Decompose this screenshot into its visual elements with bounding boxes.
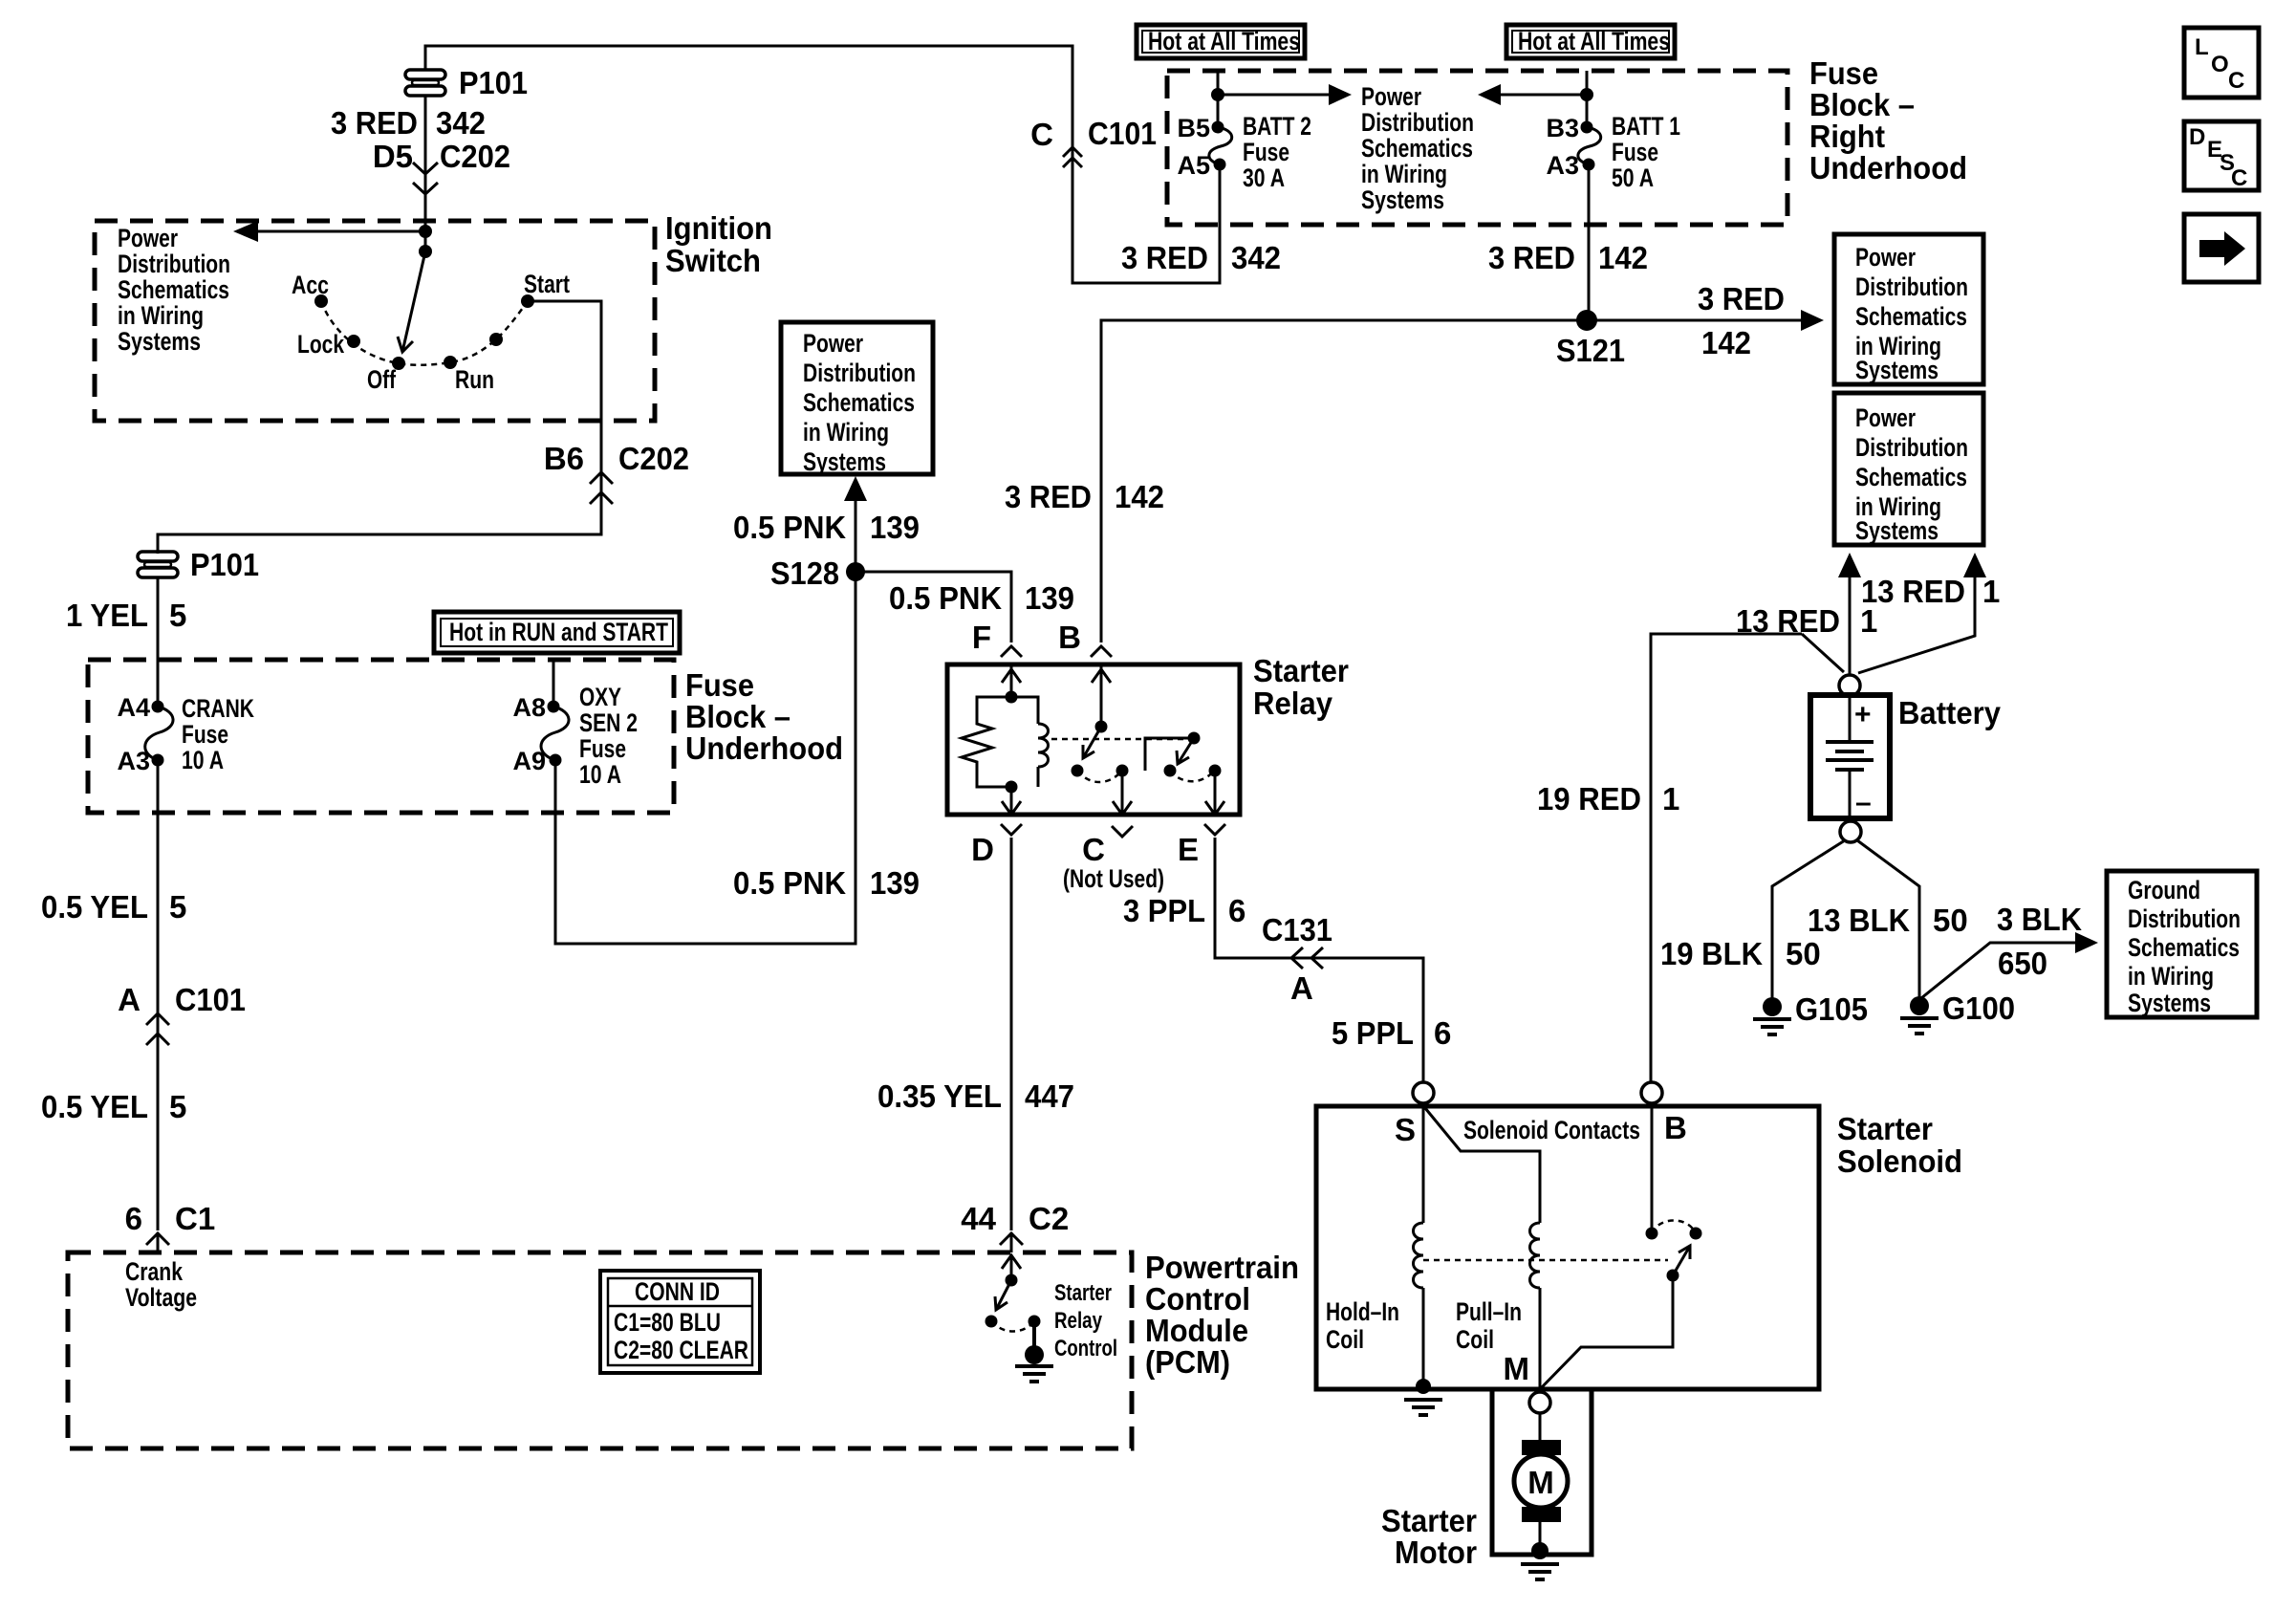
node B3 feed with arrow to power distribution (left) <box>1478 84 1593 105</box>
svg-text:Fuse: Fuse <box>182 720 228 749</box>
wire: OXY SEN2 fuse feed stub <box>552 660 555 707</box>
svg-text:C101: C101 <box>1088 116 1157 151</box>
wire: battery positive up arrow to power dist (left) <box>1838 553 1861 675</box>
svg-text:Ground: Ground <box>2128 876 2200 904</box>
svg-text:Schematics: Schematics <box>1361 134 1473 163</box>
label Hot at All Times (right, double box) <box>1506 25 1675 58</box>
legend box LOC <box>2184 28 2259 98</box>
label 3 RED 342 (circuit from BATT2 fuse) <box>1121 240 1281 275</box>
node Run <box>444 356 494 394</box>
wire: BATT1 fuse feed stub <box>1586 71 1589 127</box>
svg-text:A8: A8 <box>512 693 546 722</box>
svg-text:Distribution: Distribution <box>803 359 916 387</box>
svg-text:Underhood: Underhood <box>685 730 843 766</box>
label 19 BLK 50 <box>1660 936 1821 971</box>
svg-text:G100: G100 <box>1942 991 2015 1026</box>
svg-text:L: L <box>2195 34 2209 60</box>
splice S121 <box>1556 310 1625 368</box>
svg-text:C: C <box>1082 832 1105 867</box>
svg-text:Power: Power <box>118 224 178 252</box>
svg-text:142: 142 <box>1701 325 1751 360</box>
label Powertrain Control Module (PCM) <box>1145 1250 1299 1380</box>
label 1 YEL 5 <box>66 598 186 633</box>
connector P101 (top grommet) <box>405 65 528 100</box>
svg-text:Start: Start <box>524 270 570 298</box>
label Ignition Switch <box>665 210 772 278</box>
svg-text:Module: Module <box>1145 1313 1248 1348</box>
svg-text:C: C <box>1030 117 1053 152</box>
svg-text:P101: P101 <box>459 65 528 100</box>
svg-text:Battery: Battery <box>1898 695 2002 730</box>
connector C2 pin 44 (single chevron) <box>961 1201 1069 1252</box>
svg-text:C1: C1 <box>175 1201 215 1236</box>
svg-text:Block –: Block – <box>685 699 791 734</box>
svg-text:S121: S121 <box>1556 333 1625 368</box>
label 3 PPL 6 <box>1123 893 1245 928</box>
svg-text:3 RED: 3 RED <box>1005 479 1092 514</box>
svg-text:Systems: Systems <box>1855 356 1939 384</box>
wire: relay D to PCM 44 C2 <box>1010 838 1013 1230</box>
svg-text:Motor: Motor <box>1395 1535 1477 1570</box>
svg-text:C2=80 CLEAR: C2=80 CLEAR <box>614 1336 748 1364</box>
fuse OXY SEN 2 10A <box>512 683 638 789</box>
svg-text:A: A <box>1290 970 1313 1006</box>
svg-text:Lock: Lock <box>297 330 345 359</box>
svg-text:Hold–In: Hold–In <box>1326 1297 1399 1326</box>
node Lock <box>297 330 360 359</box>
wire: OXY A9 to S128 <box>555 574 856 944</box>
svg-text:C: C <box>2228 68 2244 94</box>
svg-text:1 YEL: 1 YEL <box>66 598 148 633</box>
svg-text:Fuse: Fuse <box>685 667 754 703</box>
label Starter Relay <box>1253 653 1349 721</box>
svg-text:Ignition: Ignition <box>665 210 772 246</box>
svg-text:Distribution: Distribution <box>118 250 230 278</box>
svg-text:Control: Control <box>1145 1281 1250 1317</box>
svg-text:Powertrain: Powertrain <box>1145 1250 1299 1285</box>
splice S128 <box>770 555 865 591</box>
CONN ID table <box>600 1271 760 1373</box>
svg-text:5: 5 <box>169 889 186 925</box>
wire: P101 to ignition switch feed <box>424 95 427 251</box>
relay linkage (dashed) <box>1051 738 1185 741</box>
label 13 RED 1 (right battery feed) <box>1861 574 2000 609</box>
wire: C101 A to PCM C1 <box>157 1034 160 1230</box>
svg-text:Schematics: Schematics <box>803 388 915 417</box>
svg-text:B3: B3 <box>1546 114 1579 142</box>
relay coil D output arrow <box>1002 787 1021 815</box>
label Fuse Block - Right Underhood <box>1809 55 1967 185</box>
node Acc <box>292 271 329 308</box>
svg-text:D: D <box>971 832 994 867</box>
label 3 RED 142 (from BATT1) <box>1488 240 1648 275</box>
starter motor symbol <box>1514 1413 1568 1547</box>
svg-text:139: 139 <box>870 865 920 901</box>
label 0.5 PNK 139 (lower) <box>733 865 920 901</box>
label 5 PPL 6 <box>1332 1015 1451 1051</box>
wire: P101 to CRANK fuse A4 <box>157 577 160 707</box>
svg-text:Systems: Systems <box>1361 185 1444 214</box>
svg-text:B6: B6 <box>544 441 584 476</box>
svg-text:C101: C101 <box>175 982 246 1017</box>
relay terminal F (chevron) <box>972 620 1022 657</box>
svg-text:OXY: OXY <box>579 683 621 711</box>
connector P101 (lower grommet) <box>138 547 259 582</box>
connector C101 pin C (inline, double chevron) <box>1030 116 1157 167</box>
svg-text:A5: A5 <box>1177 151 1210 180</box>
svg-text:Systems: Systems <box>803 447 886 476</box>
svg-text:C: C <box>2231 165 2247 191</box>
label 3 BLK / 650 <box>1997 902 2082 981</box>
solenoid pull-in coil feed <box>1425 1108 1540 1223</box>
solenoid hold-in coil <box>1414 1103 1432 1394</box>
fuse CRANK 10A <box>117 693 254 775</box>
ground G100 <box>1900 991 2015 1034</box>
svg-text:0.5 PNK: 0.5 PNK <box>733 865 846 901</box>
svg-text:(Not Used): (Not Used) <box>1063 864 1164 893</box>
PCM starter relay control driver (switch to ground) <box>986 1255 1041 1347</box>
label Hot in RUN and START (double box) <box>434 612 680 653</box>
svg-text:O: O <box>2211 52 2229 77</box>
svg-text:44: 44 <box>961 1201 996 1236</box>
wire: arrow to power distribution (left) <box>233 221 432 242</box>
battery B+ terminal <box>1839 675 1860 696</box>
svg-text:50 A: 50 A <box>1612 163 1654 192</box>
wire: BATT1 A3 down to S121 <box>1588 164 1591 320</box>
fuse BATT2 30A <box>1177 112 1311 192</box>
svg-text:Fuse: Fuse <box>1612 138 1658 166</box>
svg-text:447: 447 <box>1025 1078 1074 1114</box>
node Start <box>521 270 570 308</box>
svg-text:Distribution: Distribution <box>1855 433 1968 462</box>
solenoid terminal S <box>1395 1082 1434 1147</box>
svg-text:A3: A3 <box>117 747 150 775</box>
svg-text:G105: G105 <box>1795 991 1868 1027</box>
starter solenoid box <box>1316 1106 1819 1389</box>
svg-text:Crank: Crank <box>125 1257 184 1286</box>
svg-text:M: M <box>1527 1465 1554 1500</box>
svg-text:Starter: Starter <box>1837 1111 1933 1146</box>
svg-text:(PCM): (PCM) <box>1145 1344 1230 1380</box>
svg-text:13 BLK: 13 BLK <box>1808 903 1910 938</box>
svg-text:6: 6 <box>1228 893 1245 928</box>
svg-text:C202: C202 <box>618 441 689 476</box>
label 0.5 PNK 139 (to relay) <box>889 580 1074 616</box>
label 13 BLK 50 <box>1808 903 1968 938</box>
svg-text:Schematics: Schematics <box>118 275 229 304</box>
svg-text:30 A: 30 A <box>1243 163 1285 192</box>
svg-text:D: D <box>2189 124 2205 150</box>
svg-text:Systems: Systems <box>2128 989 2211 1017</box>
wire: Start contact to C202 B6 <box>528 301 601 494</box>
svg-text:0.5 YEL: 0.5 YEL <box>41 1089 148 1124</box>
svg-text:F: F <box>972 620 991 655</box>
svg-text:BATT 1: BATT 1 <box>1612 112 1680 141</box>
svg-text:3 RED: 3 RED <box>331 105 418 141</box>
svg-text:342: 342 <box>436 105 486 141</box>
svg-text:Distribution: Distribution <box>2128 904 2241 933</box>
label Starter Relay Control <box>1054 1280 1117 1361</box>
svg-text:in Wiring: in Wiring <box>803 418 889 446</box>
svg-text:6: 6 <box>1434 1015 1451 1051</box>
note: power distribution reference (ignition box) <box>118 224 230 356</box>
label 0.35 YEL 447 <box>877 1078 1074 1114</box>
PCM internal ground <box>1015 1345 1053 1382</box>
box: power distribution schematics (right lower) <box>1834 393 1983 545</box>
label 0.5 YEL 5 (below C101) <box>41 1089 186 1124</box>
svg-text:Pull–In: Pull–In <box>1456 1297 1522 1326</box>
svg-text:–: – <box>1855 787 1872 818</box>
svg-text:in Wiring: in Wiring <box>1361 160 1447 188</box>
label Hold-In Coil <box>1326 1297 1399 1354</box>
svg-text:Fuse: Fuse <box>1809 55 1878 91</box>
svg-text:Power: Power <box>1361 82 1421 111</box>
connector C101 pin A (double chevron up) <box>118 982 246 1045</box>
connector C131 pin A (double chevron left) <box>1262 912 1332 1006</box>
svg-text:E: E <box>1178 832 1199 867</box>
svg-text:A: A <box>118 982 141 1017</box>
svg-text:Systems: Systems <box>1855 516 1939 545</box>
wire: BATT2 fuse feed stub <box>1217 71 1220 127</box>
wire: battery negative to G100 <box>1857 840 1919 999</box>
box: ground distribution schematics <box>2107 871 2257 1017</box>
svg-text:10 A: 10 A <box>182 746 224 774</box>
svg-text:Coil: Coil <box>1326 1325 1364 1354</box>
svg-text:Solenoid Contacts: Solenoid Contacts <box>1463 1116 1640 1144</box>
label 3 RED / 142 (S121 branch) <box>1698 281 1785 360</box>
ignition switch wiper arm <box>398 245 432 352</box>
svg-text:Switch: Switch <box>665 243 761 278</box>
svg-text:Distribution: Distribution <box>1361 108 1474 137</box>
relay terminal C (chevron, not used) <box>1063 826 1164 893</box>
box: power distribution schematics (middle) <box>781 322 933 476</box>
svg-text:SEN 2: SEN 2 <box>579 708 638 737</box>
svg-text:13 RED: 13 RED <box>1861 574 1965 609</box>
svg-text:Starter: Starter <box>1253 653 1349 688</box>
svg-text:0.35 YEL: 0.35 YEL <box>877 1078 1002 1114</box>
svg-text:A9: A9 <box>512 747 546 775</box>
svg-text:+: + <box>1854 699 1872 730</box>
svg-text:142: 142 <box>1598 240 1648 275</box>
starter relay box <box>947 664 1240 815</box>
solenoid terminal B <box>1641 1082 1687 1145</box>
svg-text:Hot at All Times: Hot at All Times <box>1148 27 1300 55</box>
relay terminal D (chevron) <box>971 824 1022 867</box>
svg-text:Hot in RUN and START: Hot in RUN and START <box>449 618 668 646</box>
svg-text:10 A: 10 A <box>579 760 621 789</box>
battery box <box>1810 695 1890 818</box>
relay switch 2 (to E) <box>1145 732 1224 816</box>
svg-text:Underhood: Underhood <box>1809 150 1967 185</box>
svg-text:Hot at All Times: Hot at All Times <box>1518 27 1670 55</box>
label Hot at All Times (left, double box) <box>1137 25 1305 58</box>
wire: battery negative to G105 <box>1772 840 1845 1000</box>
label Pull-In Coil <box>1456 1297 1522 1354</box>
box: power distribution schematics (right upper) <box>1834 234 1983 384</box>
label 3 RED 142 (to relay B) <box>1005 479 1164 514</box>
svg-text:C131: C131 <box>1262 912 1332 947</box>
wire: G100 to ground distribution arrow <box>1921 932 2098 998</box>
svg-text:1: 1 <box>1982 574 2000 609</box>
PCM dashed box <box>68 1252 1132 1448</box>
node Off <box>367 357 405 394</box>
wire: CRANK A3 down to PCM C1 <box>157 760 160 1035</box>
ground G105 <box>1753 991 1868 1034</box>
relay terminal E (chevron) <box>1178 824 1225 867</box>
svg-text:3 RED: 3 RED <box>1121 240 1208 275</box>
svg-text:19 RED: 19 RED <box>1537 781 1641 816</box>
svg-text:Schematics: Schematics <box>1855 463 1967 491</box>
svg-text:D5: D5 <box>373 139 413 174</box>
label 3 RED 342 / D5 C202 <box>331 105 510 174</box>
svg-text:3 RED: 3 RED <box>1698 281 1785 316</box>
svg-text:Coil: Coil <box>1456 1325 1494 1354</box>
solenoid contact switch <box>1541 1103 1702 1388</box>
svg-text:S: S <box>1395 1112 1416 1147</box>
wire: fuse BATT2 feed from A5 via C101 to P101 top <box>425 46 1220 283</box>
svg-text:in Wiring: in Wiring <box>118 301 204 330</box>
label 0.5 PNK 139 (upper) <box>733 510 920 545</box>
svg-text:139: 139 <box>1025 580 1074 616</box>
starter motor ground <box>1521 1542 1559 1579</box>
svg-text:Relay: Relay <box>1054 1308 1103 1334</box>
svg-text:0.5 PNK: 0.5 PNK <box>733 510 846 545</box>
svg-text:50: 50 <box>1933 903 1968 938</box>
svg-text:Acc: Acc <box>292 271 329 299</box>
fuse BATT1 50A <box>1546 112 1680 192</box>
svg-text:Schematics: Schematics <box>1855 302 1967 331</box>
label Crank Voltage <box>125 1257 197 1312</box>
svg-text:Starter: Starter <box>1381 1503 1477 1538</box>
svg-text:B5: B5 <box>1177 114 1210 142</box>
wire: battery positive diagonal up arrow to power dist (right) <box>1858 553 1986 673</box>
svg-text:19 BLK: 19 BLK <box>1660 936 1763 971</box>
connector C1 pin 6 (single chevron) <box>125 1201 216 1252</box>
svg-text:B: B <box>1664 1110 1687 1145</box>
svg-text:CRANK: CRANK <box>182 694 254 723</box>
fuse block underhood dashed box <box>88 660 674 813</box>
fuse block right underhood dashed box <box>1167 71 1787 225</box>
relay coil parallel branch (resistor + coil) <box>962 691 1049 794</box>
wire: relay E to C131 <box>1215 838 1423 1083</box>
svg-text:A4: A4 <box>117 693 150 722</box>
svg-text:C2: C2 <box>1029 1201 1069 1236</box>
svg-text:P101: P101 <box>190 547 259 582</box>
wire: S121 arrow to power distribution box (right) <box>1587 310 1824 331</box>
svg-text:5 PPL: 5 PPL <box>1332 1015 1414 1051</box>
svg-text:5: 5 <box>169 598 186 633</box>
wire: S128 to relay F <box>856 572 1011 642</box>
svg-text:Power: Power <box>1855 243 1916 272</box>
solenoid terminal M <box>1504 1351 1551 1413</box>
connector C202 pin B6 (double chevron up) <box>544 441 689 504</box>
svg-text:Power: Power <box>1855 403 1916 432</box>
svg-text:C1=80 BLU: C1=80 BLU <box>614 1308 721 1337</box>
label Fuse Block - Underhood <box>685 667 843 766</box>
svg-text:Fuse: Fuse <box>1243 138 1289 166</box>
svg-text:BATT 2: BATT 2 <box>1243 112 1311 141</box>
svg-text:Right: Right <box>1809 119 1885 154</box>
svg-text:650: 650 <box>1998 946 2047 981</box>
svg-text:Control: Control <box>1054 1336 1117 1361</box>
battery cell symbol <box>1826 696 1874 818</box>
svg-text:Systems: Systems <box>118 327 201 356</box>
svg-text:5: 5 <box>169 1089 186 1124</box>
svg-text:139: 139 <box>870 510 920 545</box>
svg-text:S128: S128 <box>770 555 839 591</box>
svg-text:0.5 PNK: 0.5 PNK <box>889 580 1002 616</box>
solenoid pull-in coil <box>1530 1223 1541 1389</box>
starter motor box <box>1492 1389 1592 1555</box>
relay switch 1 (B to C) <box>1072 664 1133 815</box>
svg-text:Starter: Starter <box>1054 1280 1112 1306</box>
svg-text:6: 6 <box>125 1201 142 1236</box>
svg-text:1: 1 <box>1662 781 1679 816</box>
label Starter Solenoid <box>1837 1111 1962 1179</box>
svg-text:A3: A3 <box>1546 151 1579 180</box>
legend box arrow <box>2184 214 2259 282</box>
connector C202 pin D5 (double chevron down) <box>413 163 438 194</box>
wire: S121 to relay B <box>1101 320 1587 642</box>
svg-text:Schematics: Schematics <box>2128 933 2240 962</box>
legend box DESC <box>2184 121 2259 191</box>
svg-text:3 BLK: 3 BLK <box>1997 902 2082 937</box>
svg-text:342: 342 <box>1231 240 1281 275</box>
ignition switch dashed box <box>95 221 655 421</box>
label 0.5 YEL 5 (above C101) <box>41 889 186 925</box>
label 13 RED 1 (left battery feed) <box>1736 603 1877 639</box>
relay terminal B (chevron) <box>1058 620 1112 657</box>
relay coil F input arrow <box>1002 664 1021 697</box>
svg-text:Run: Run <box>455 365 494 394</box>
node between Run and Start <box>489 333 503 346</box>
solenoid linkage (dashed) <box>1423 1259 1668 1262</box>
svg-text:Fuse: Fuse <box>579 734 626 763</box>
svg-text:50: 50 <box>1786 936 1821 971</box>
svg-text:Relay: Relay <box>1253 686 1333 721</box>
svg-text:0.5 YEL: 0.5 YEL <box>41 889 148 925</box>
svg-text:CONN ID: CONN ID <box>635 1277 720 1306</box>
svg-text:Distribution: Distribution <box>1855 272 1968 301</box>
svg-text:Voltage: Voltage <box>125 1283 197 1312</box>
ignition switch position arc (dashed) <box>321 301 528 365</box>
svg-text:Solenoid: Solenoid <box>1837 1143 1962 1179</box>
svg-text:3 PPL: 3 PPL <box>1123 893 1205 928</box>
node B5 feed with arrow to power distribution (right) <box>1211 84 1352 105</box>
svg-text:Power: Power <box>803 329 863 358</box>
svg-text:B: B <box>1058 620 1081 655</box>
svg-text:in Wiring: in Wiring <box>2128 962 2214 991</box>
svg-text:Off: Off <box>367 365 397 394</box>
svg-text:C202: C202 <box>440 139 510 174</box>
solenoid hold-in ground <box>1404 1400 1442 1415</box>
svg-text:M: M <box>1504 1351 1530 1386</box>
wire: 19 RED 1 from battery positive to solenoid B <box>1651 634 1802 1083</box>
label 19 RED 1 <box>1537 781 1679 816</box>
svg-text:142: 142 <box>1115 479 1164 514</box>
svg-text:Block –: Block – <box>1809 87 1915 122</box>
wire: S128 up arrow to power distribution box <box>844 476 867 572</box>
svg-text:3 RED: 3 RED <box>1488 240 1575 275</box>
battery B- terminal <box>1840 821 1861 842</box>
note: power distribution reference (fuse block) <box>1361 82 1474 214</box>
label Starter Motor <box>1381 1503 1477 1570</box>
wire: C202 B6 down to P101 lower <box>158 492 601 554</box>
